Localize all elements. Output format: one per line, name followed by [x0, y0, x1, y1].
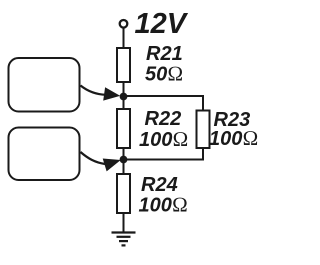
ground — [112, 233, 136, 246]
wire node A to R23 branch top — [124, 96, 204, 111]
resistor R23 — [197, 111, 210, 149]
wire R23 bottom to node B — [124, 148, 204, 160]
svg-text:100Ω: 100Ω — [209, 126, 259, 150]
svg-text:50Ω: 50Ω — [145, 62, 183, 86]
node A junction dot — [120, 93, 128, 101]
svg-text:12V: 12V — [135, 8, 189, 40]
svg-text:100Ω: 100Ω — [139, 127, 189, 151]
node B junction dot — [120, 156, 128, 164]
wire R21 to node A — [123, 82, 125, 97]
wire node B to R24 — [123, 160, 125, 176]
resistor R24 — [117, 174, 130, 213]
arrow from box 1 to node A — [81, 86, 107, 95]
terminal 12V — [120, 20, 128, 28]
callout box 1 — [9, 58, 80, 112]
arrow from box 2 to node B — [81, 152, 106, 164]
arrowhead 1 — [104, 88, 119, 100]
wire R22 to node B — [123, 148, 125, 160]
resistor R21 — [117, 48, 130, 82]
wire terminal to R21 — [123, 28, 125, 50]
callout box 2 — [9, 128, 80, 181]
arrowhead 2 — [103, 159, 119, 171]
resistor R22 — [117, 109, 130, 148]
svg-text:100Ω: 100Ω — [139, 193, 189, 217]
wire R24 to ground — [123, 213, 125, 233]
wire node A to R22 — [123, 97, 125, 111]
